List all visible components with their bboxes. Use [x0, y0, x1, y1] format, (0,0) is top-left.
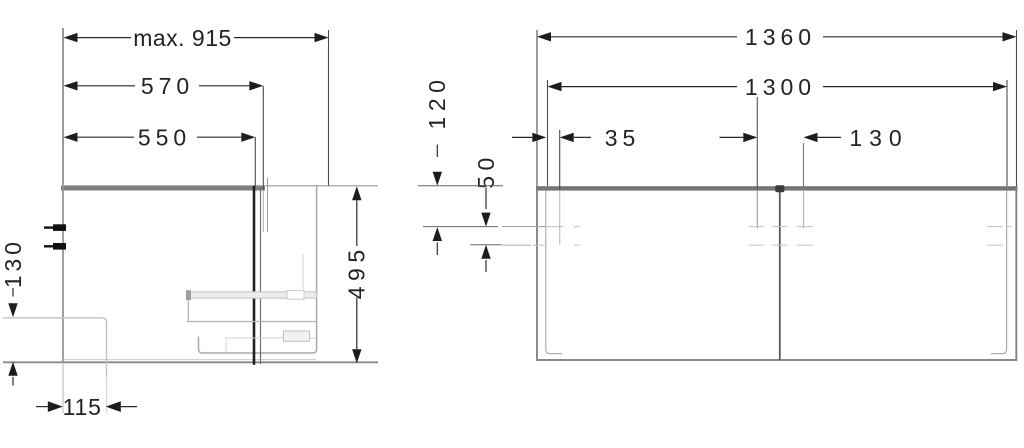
- svg-text:1300: 1300: [745, 74, 816, 100]
- dimension 1300: [562, 86, 994, 88]
- dimension max.915: [78, 37, 315, 39]
- hidden vertical left of center: [756, 190, 758, 229]
- drawer rail end cap: [186, 290, 191, 300]
- countertop slab front view: [536, 186, 1018, 190]
- svg-text:130: 130: [849, 125, 908, 151]
- extension line max915 right: [328, 30, 330, 186]
- dimension 130: [720, 136, 744, 138]
- drawer internals: top rail band: [188, 291, 317, 300]
- svg-text:1360: 1360: [745, 24, 816, 50]
- extension line 1360 left: [536, 30, 538, 186]
- extension line below cabinet back: [62, 363, 64, 414]
- svg-text:50: 50: [473, 152, 499, 189]
- cabinet right edge: [1015, 186, 1017, 361]
- wall mounting tick lower: [44, 243, 66, 250]
- extension line 570: [262, 86, 264, 190]
- recess extension light: [106, 377, 108, 413]
- hidden line pair front edge: [267, 178, 269, 232]
- recess outline bottom left: [3, 318, 107, 377]
- svg-text:550: 550: [138, 125, 191, 151]
- dimension 35: [512, 136, 532, 138]
- extension line 130 left: [756, 97, 758, 190]
- svg-text:115: 115: [63, 394, 102, 420]
- extension line 130 right: [803, 143, 805, 190]
- drawer back vertical: [187, 300, 189, 322]
- hidden line below countertop front edge: [262, 190, 264, 232]
- dimension 495 vertical: [356, 200, 358, 349]
- countertop slab (side view): [61, 185, 265, 190]
- countertop top thin line continuing right: [253, 185, 378, 187]
- drawer front black line: [253, 186, 256, 365]
- cabinet left edge: [536, 186, 538, 361]
- extension line top of cabinet (left refs): [418, 185, 503, 187]
- cabinet inner bottom light line: [63, 359, 316, 361]
- siphon box: [284, 331, 310, 341]
- svg-text:495: 495: [344, 244, 370, 299]
- extension line 1300 left: [547, 80, 549, 186]
- drawer bottom step vertical: [225, 339, 227, 352]
- extension line 1360 right: [1016, 30, 1018, 186]
- drawer rail lower line: [187, 321, 317, 323]
- svg-text:130: 130: [0, 238, 26, 288]
- hidden horizontal dashes lower: [502, 244, 1003, 246]
- hidden vertical 35 line: [559, 190, 561, 245]
- extension line left (back wall): [62, 28, 64, 185]
- svg-text:35: 35: [605, 125, 641, 151]
- dimension 550: [78, 136, 242, 138]
- svg-text:120: 120: [424, 75, 450, 130]
- extension line 35: [559, 130, 561, 190]
- drawer front left edge: [546, 191, 562, 354]
- cabinet right wall with bottom corner: [199, 186, 317, 353]
- dimension 1360: [551, 36, 1003, 38]
- svg-text:570: 570: [141, 73, 194, 99]
- center top joint blob: [775, 185, 784, 192]
- hidden horizontal dashes upper: [502, 226, 1012, 228]
- dimension 570: [78, 85, 250, 87]
- svg-text:max. 915: max. 915: [133, 25, 232, 51]
- hidden vertical right of center: [803, 190, 805, 229]
- wall mounting tick upper: [44, 224, 66, 231]
- drawer front right edge: [991, 191, 1007, 354]
- drawer front inner gray line: [260, 187, 262, 364]
- cabinet bottom: [536, 359, 1017, 361]
- cabinet bottom line: [3, 361, 378, 363]
- drain pipe hidden line: [302, 254, 304, 291]
- extension line 50 lower reference: [471, 244, 502, 246]
- extension line 120 lower reference: [423, 226, 498, 228]
- cabinet back (left) edge: [62, 186, 64, 363]
- dimension 115: [36, 406, 48, 408]
- extension line 550: [254, 137, 256, 187]
- extension line 1300 right: [1006, 80, 1008, 186]
- drawer bottom faint line: [225, 337, 316, 339]
- center split line: [779, 190, 781, 360]
